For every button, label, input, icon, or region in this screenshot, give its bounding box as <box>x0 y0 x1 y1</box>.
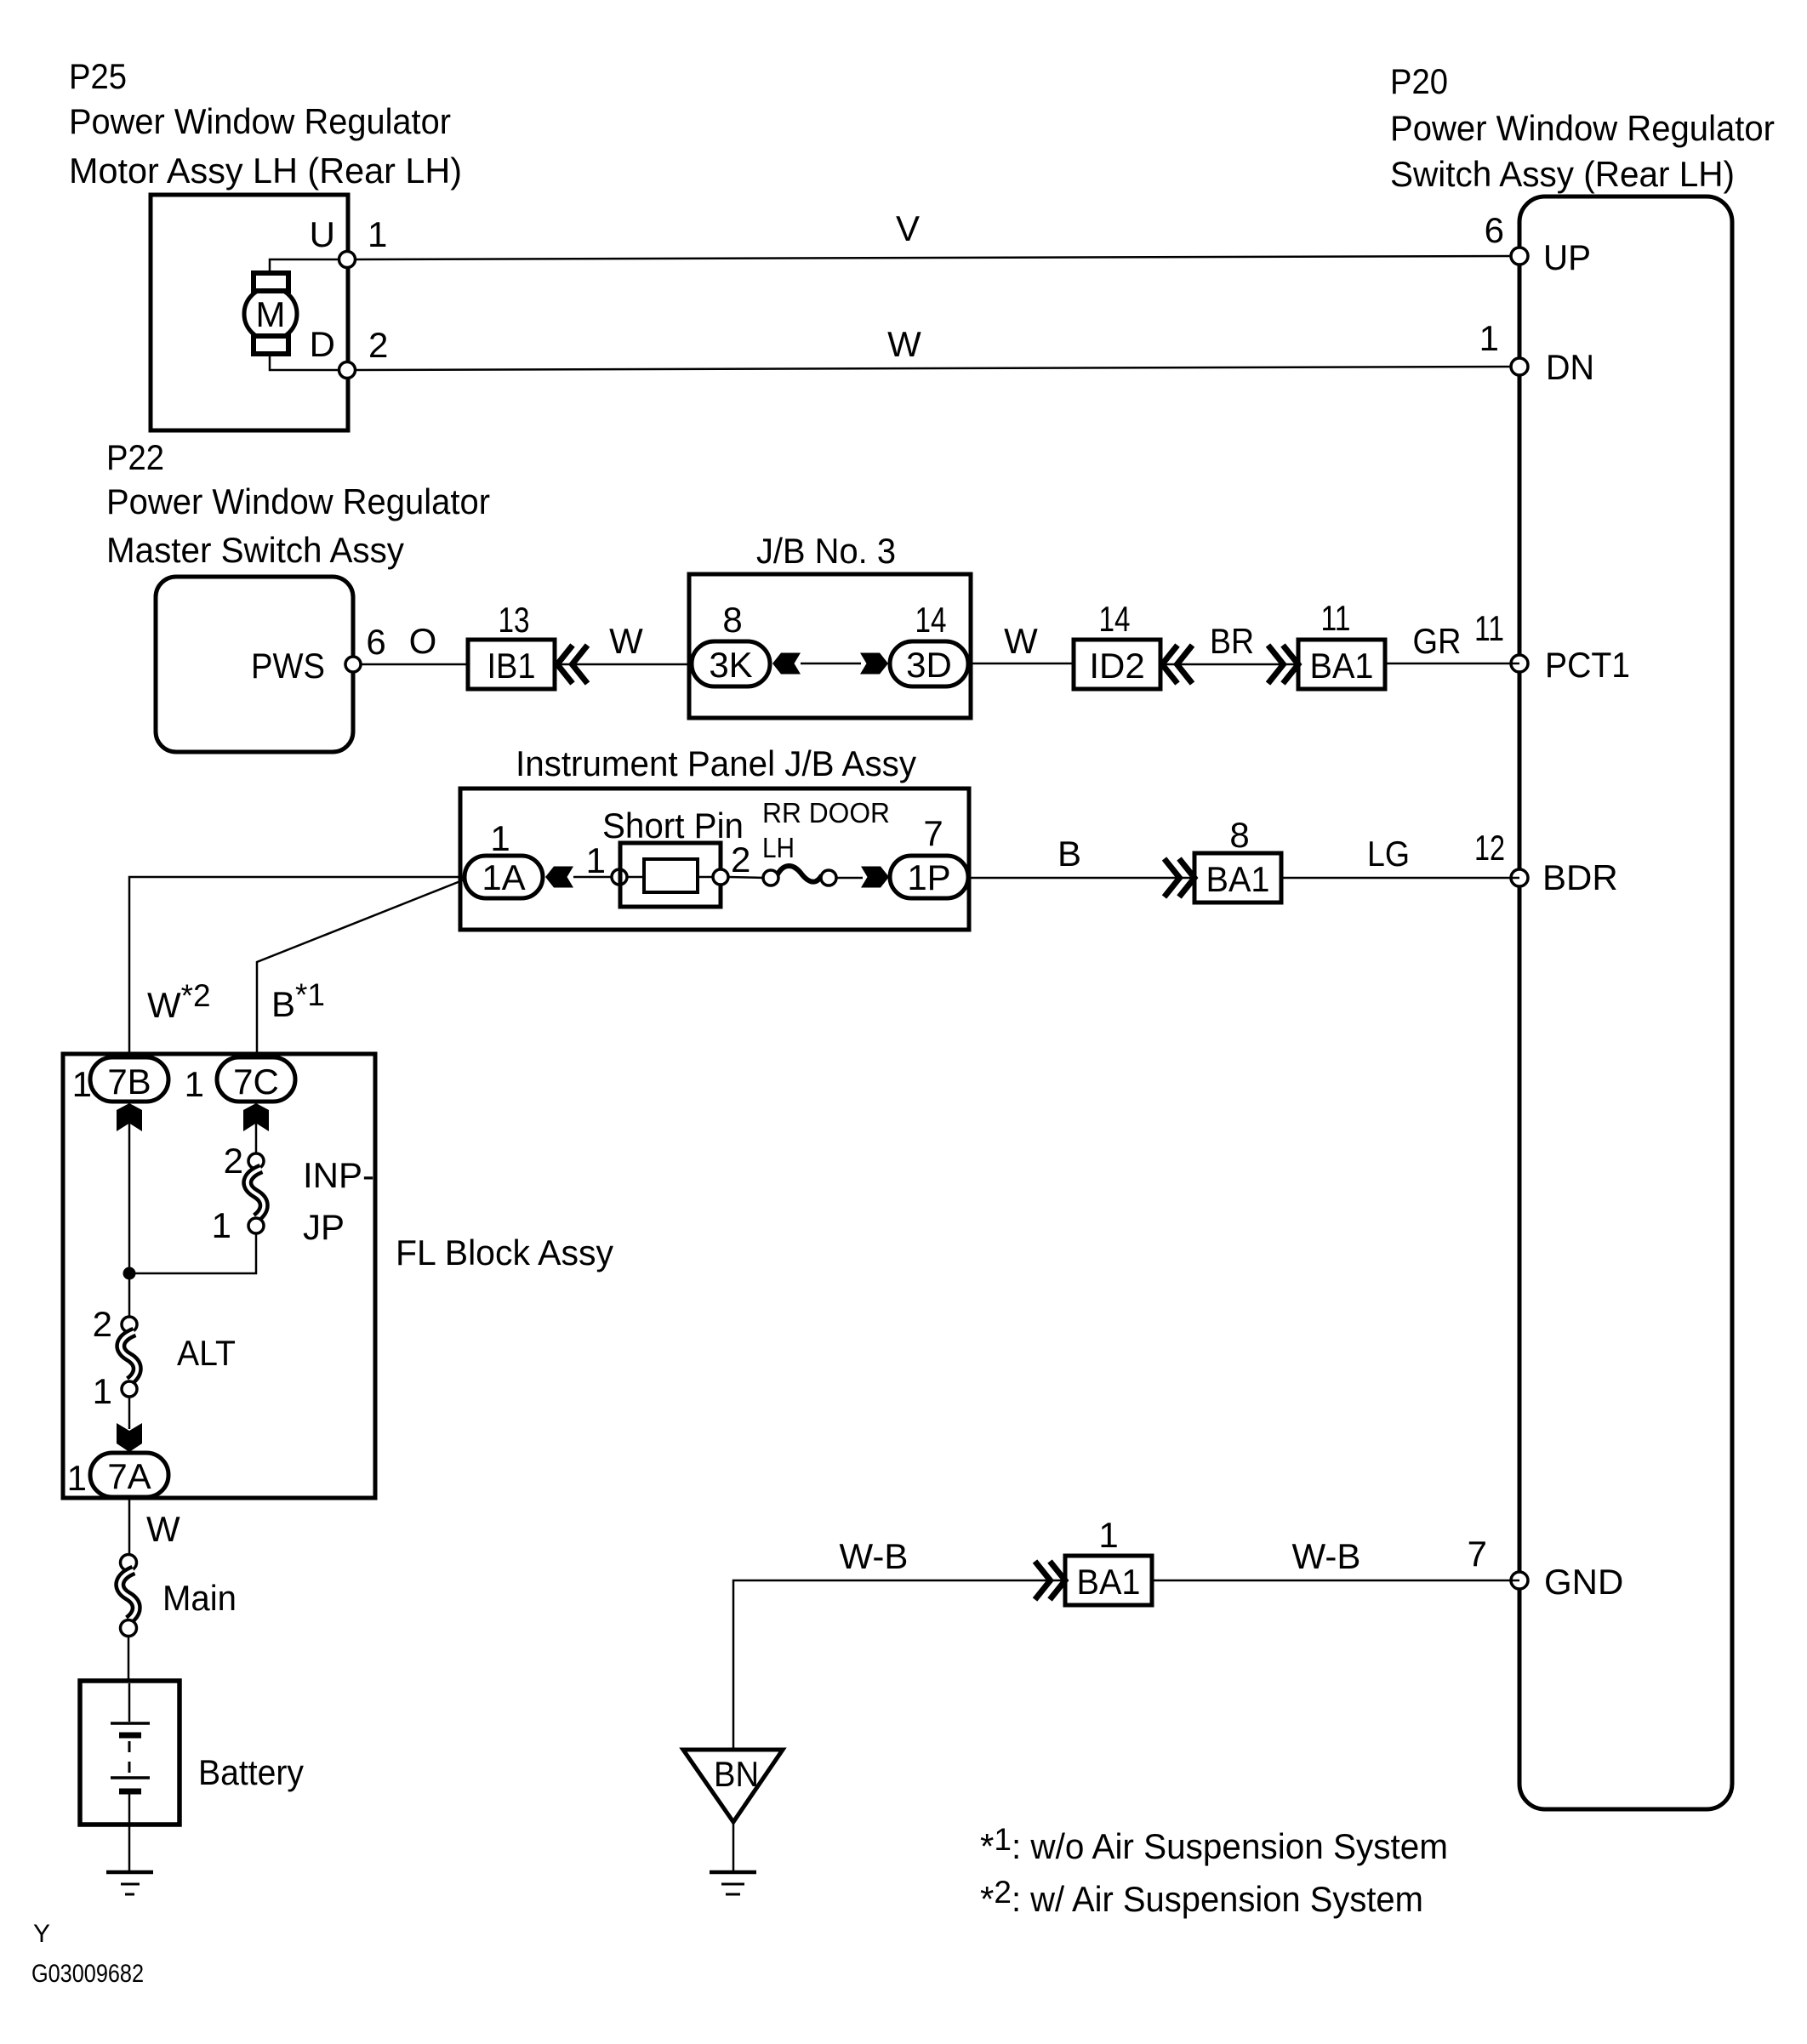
svg-text:Instrument Panel J/B Assy: Instrument Panel J/B Assy <box>516 743 916 783</box>
wire B*1 from 1A to 7C <box>257 880 465 1060</box>
wire O from PWS pin6 to IB1 <box>361 663 468 666</box>
svg-text:2: 2 <box>224 1141 243 1181</box>
svg-text:PWS: PWS <box>251 646 325 686</box>
wire LG from BA1 to P20 pin12 <box>1281 877 1519 880</box>
component box: power window regulator motor assy P25 <box>151 195 348 430</box>
svg-text:14: 14 <box>915 600 947 640</box>
svg-text:1: 1 <box>1479 318 1499 358</box>
svg-text:1: 1 <box>185 1064 204 1104</box>
svg-text:GND: GND <box>1544 1562 1623 1602</box>
wire BR from ID2 to BA1 <box>1160 663 1298 666</box>
svg-text:P20: P20 <box>1390 61 1448 101</box>
svg-text:11: 11 <box>1321 598 1351 638</box>
pin 11 (PCT1) of P20 <box>1511 655 1528 672</box>
svg-text:2: 2 <box>368 325 388 365</box>
svg-text:D: D <box>310 324 335 364</box>
svg-text:8: 8 <box>1229 815 1249 855</box>
wire 7C branch down <box>255 1102 258 1154</box>
svg-text:Switch Assy (Rear LH): Switch Assy (Rear LH) <box>1390 154 1735 194</box>
wire inside J/B No.3 <box>801 663 861 665</box>
svg-text:2: 2 <box>93 1304 112 1344</box>
svg-text:U: U <box>310 214 335 254</box>
svg-text:*2: w/ Air Suspension System: *2: w/ Air Suspension System <box>980 1875 1423 1919</box>
svg-text:Short Pin: Short Pin <box>602 806 744 845</box>
wire to arrow <box>836 877 863 880</box>
component box: power window regulator switch assy P20 <box>1519 196 1732 1809</box>
svg-text:J/B No. 3: J/B No. 3 <box>756 531 896 571</box>
black arrow into 3K <box>772 653 801 675</box>
svg-text:LG: LG <box>1367 834 1410 874</box>
svg-text:W-B: W-B <box>1292 1536 1361 1576</box>
wire B from 1P to BA1 <box>969 877 1194 880</box>
pin 1 (DN) of P20 <box>1511 358 1528 375</box>
wire motor internal D <box>270 351 347 370</box>
svg-text:B: B <box>1057 834 1081 874</box>
svg-text:1A: 1A <box>482 857 525 897</box>
pin 2 (D) of P25 <box>339 362 356 379</box>
svg-text:W-B: W-B <box>840 1536 909 1576</box>
motor brush bottom <box>254 336 288 354</box>
ground (BN) <box>710 1870 756 1875</box>
component box: power window regulator master switch assy P22 <box>156 577 353 752</box>
svg-text:Power Window Regulator: Power Window Regulator <box>69 101 451 141</box>
svg-text:6: 6 <box>366 622 385 662</box>
svg-text:1: 1 <box>586 840 606 880</box>
wire battery to ground <box>128 1825 131 1872</box>
wire <box>728 877 765 878</box>
svg-text:ID2: ID2 <box>1089 646 1144 686</box>
svg-text:Motor Assy LH (Rear LH): Motor Assy LH (Rear LH) <box>69 151 462 191</box>
svg-text:7: 7 <box>1468 1534 1487 1574</box>
svg-text:W: W <box>609 621 643 661</box>
svg-text:JP: JP <box>303 1207 345 1247</box>
svg-text:11: 11 <box>1474 608 1504 648</box>
chevron splice arrows left after ID2 <box>1162 646 1177 684</box>
svg-text:FL Block Assy: FL Block Assy <box>396 1233 613 1273</box>
connector 3K pin 8 <box>692 641 770 686</box>
svg-text:1: 1 <box>490 818 510 858</box>
black arrow into 3D <box>860 653 888 675</box>
svg-text:V: V <box>896 208 920 248</box>
svg-text:UP: UP <box>1543 237 1591 277</box>
wire motor internal U <box>270 259 347 276</box>
chevron splice arrows right before BA1 (BDR row) <box>1165 859 1180 897</box>
pin 2 of short pin <box>713 869 728 885</box>
wire GR from BA1 to P20 pin11 <box>1385 663 1519 665</box>
black down arrow above 7A <box>117 1423 142 1452</box>
pin 6 (PWS) of P22 <box>345 657 361 672</box>
pin 12 (BDR) of P20 <box>1511 869 1528 886</box>
connector 7A pin 1 <box>90 1453 168 1497</box>
svg-text:3K: 3K <box>709 645 752 685</box>
wire W-B from BN up and right to BA1 <box>733 1580 1065 1750</box>
connector BA1 pin 1 <box>1065 1556 1152 1605</box>
pin 1 of short pin <box>612 869 627 885</box>
svg-text:Battery: Battery <box>198 1752 304 1792</box>
svg-text:1: 1 <box>1098 1515 1118 1555</box>
connector IB1 pin 13 <box>468 640 555 689</box>
svg-text:Master Switch Assy: Master Switch Assy <box>106 530 404 570</box>
svg-text:G03009682: G03009682 <box>31 1960 144 1988</box>
svg-text:ALT: ALT <box>177 1333 236 1373</box>
svg-text:W: W <box>146 1509 180 1549</box>
svg-text:8: 8 <box>722 600 742 640</box>
svg-text:7C: 7C <box>233 1062 279 1102</box>
wire short pin left <box>573 876 620 879</box>
svg-text:1: 1 <box>212 1205 231 1245</box>
svg-text:Power Window Regulator: Power Window Regulator <box>1390 108 1775 148</box>
svg-text:BA1: BA1 <box>1310 646 1374 686</box>
connector 1P pin 7 <box>890 856 968 898</box>
connector ID2 pin 14 <box>1074 640 1160 689</box>
wire Main fuse to battery <box>128 1636 130 1682</box>
svg-text:Main: Main <box>162 1578 237 1618</box>
connector 3D pin 14 <box>890 641 968 686</box>
component box: FL Block Assy <box>63 1054 375 1498</box>
svg-text:PCT1: PCT1 <box>1545 645 1630 685</box>
svg-text:RR DOOR: RR DOOR <box>762 797 890 828</box>
chevron splice arrows left after IB1 <box>557 646 573 684</box>
svg-text:IB1: IB1 <box>487 646 536 686</box>
svg-text:1P: 1P <box>907 857 950 897</box>
svg-text:1: 1 <box>93 1371 112 1411</box>
svg-text:7A: 7A <box>107 1456 151 1496</box>
wire from INP-JP to junction <box>129 1233 256 1273</box>
fuse Main <box>121 1555 137 1571</box>
svg-text:1: 1 <box>72 1064 92 1104</box>
svg-text:6: 6 <box>1485 210 1504 250</box>
connector BA1 pin 8 <box>1194 853 1281 902</box>
ground (battery) <box>106 1870 153 1875</box>
pin 1 (U) of P25 <box>339 252 356 268</box>
wire W (DN line from motor pin2 to switch pin1) <box>355 367 1519 370</box>
svg-text:INP-: INP- <box>303 1155 374 1195</box>
svg-text:14: 14 <box>1099 599 1131 639</box>
svg-text:O: O <box>409 621 437 661</box>
motor M1 armature circle <box>244 288 297 340</box>
chevron splice arrows right before BA1 (GND row) <box>1035 1562 1051 1600</box>
wire V (UP line from motor pin1 to switch pin6) <box>355 256 1519 259</box>
svg-text:LH: LH <box>762 832 795 863</box>
svg-text:3D: 3D <box>906 645 952 685</box>
wire W from 7A to Main fuse <box>128 1497 131 1555</box>
battery <box>80 1681 180 1825</box>
black arrow into 1P <box>861 867 889 888</box>
wire W from IB1 to J/B No.3 <box>555 663 693 666</box>
fuse INP-JP <box>248 1153 264 1169</box>
svg-text:13: 13 <box>499 600 530 640</box>
connector 7C pin 1 <box>217 1057 295 1102</box>
fuse ALT <box>122 1317 137 1332</box>
svg-text:7B: 7B <box>107 1062 151 1102</box>
wire W from J/B No.3 to ID2 <box>971 663 1074 665</box>
svg-text:W: W <box>887 324 921 364</box>
svg-text:P25: P25 <box>69 56 127 96</box>
pin 6 (UP) of P20 <box>1511 248 1528 265</box>
ground point BN triangle <box>683 1750 783 1822</box>
svg-text:BA1: BA1 <box>1077 1562 1141 1602</box>
wire W-B from BA1 to P20 pin7 <box>1152 1580 1519 1582</box>
svg-text:P22: P22 <box>106 437 164 477</box>
svg-text:*1: w/o Air Suspension System: *1: w/o Air Suspension System <box>980 1822 1448 1866</box>
svg-text:2: 2 <box>731 840 750 880</box>
wire BN to ground <box>732 1822 735 1872</box>
wire ALT to 7A <box>128 1397 131 1429</box>
connector BA1 pin 11 <box>1298 640 1385 689</box>
svg-text:1: 1 <box>368 214 387 254</box>
black up arrow below 7C <box>243 1103 269 1131</box>
svg-text:7: 7 <box>923 813 943 853</box>
wire W*2 from 1A to 7B <box>129 877 465 1060</box>
svg-text:1: 1 <box>67 1458 87 1498</box>
svg-text:DN: DN <box>1546 347 1594 387</box>
svg-text:GR: GR <box>1413 621 1462 661</box>
svg-text:BA1: BA1 <box>1206 859 1270 899</box>
svg-text:12: 12 <box>1474 828 1505 868</box>
connector 1A pin 1 <box>465 856 543 898</box>
pin 7 (GND) of P20 <box>1511 1572 1528 1589</box>
svg-text:BN: BN <box>714 1754 759 1794</box>
junction node dot <box>123 1267 136 1280</box>
svg-text:BDR: BDR <box>1542 857 1618 897</box>
motor brush top <box>254 273 288 291</box>
wire 7B branch down <box>128 1102 131 1317</box>
svg-text:Y: Y <box>33 1920 50 1948</box>
black up arrow below 7B <box>117 1103 142 1131</box>
svg-text:M: M <box>256 294 286 334</box>
connector 7B pin 1 <box>90 1057 168 1102</box>
svg-text:BR: BR <box>1210 621 1254 661</box>
black arrow into 1A <box>545 867 573 888</box>
chevron splice arrows right before BA1 <box>1268 646 1284 684</box>
svg-text:W: W <box>1004 621 1038 661</box>
fuse RR DOOR LH (wavy) <box>763 870 778 885</box>
svg-text:Power Window Regulator: Power Window Regulator <box>106 481 490 521</box>
